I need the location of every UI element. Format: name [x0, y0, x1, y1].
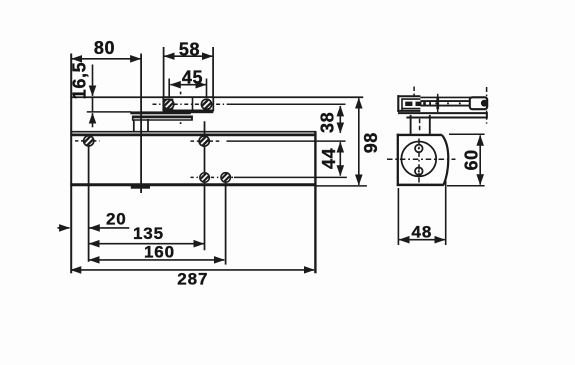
dimension 20 outside arrows — [57, 227, 69, 229]
plate screw centre extension (solid) — [230, 103, 346, 105]
top reference line — [70, 96, 363, 98]
cover top line — [70, 131, 316, 133]
body bottom extension line — [316, 185, 367, 187]
dimension 45 extension lines — [168, 79, 170, 98]
lower slide bar bottom — [406, 117, 487, 119]
slide channel bracket outer — [397, 95, 399, 112]
svg-text:45: 45 — [182, 68, 203, 88]
body screw hole lower 1 — [199, 172, 209, 182]
svg-text:160: 160 — [144, 243, 175, 262]
body bottom edge — [70, 183, 316, 186]
valve tab under body — [131, 186, 150, 189]
door axis centre line — [486, 87, 488, 124]
plate pivot centre marks — [180, 92, 182, 95]
dimension 287 — [71, 269, 314, 271]
arm channel — [132, 116, 193, 119]
arm rod segments in slot — [405, 102, 412, 106]
spindle stem right — [429, 115, 431, 134]
spindle stem left — [410, 115, 412, 134]
arm side view top line — [420, 100, 470, 102]
fixing hole upper — [415, 145, 423, 153]
lower slide bar end — [486, 112, 488, 118]
dimension 44 — [339, 142, 341, 175]
svg-text:38: 38 — [317, 112, 337, 133]
side body curved right edge — [442, 135, 448, 185]
dimension 58 — [164, 55, 212, 57]
dimension 38 — [339, 106, 341, 133]
dimension 48 — [399, 239, 445, 241]
body screw hole upper mid — [199, 136, 210, 147]
fixing hole lower — [415, 167, 423, 175]
hole-row extension line at x=88.6 — [88, 147, 90, 262]
plate screw right — [201, 99, 212, 110]
plate bottom thick bar — [163, 110, 213, 114]
slide channel bracket inner — [401, 99, 403, 111]
svg-text:20: 20 — [106, 209, 127, 228]
lower slide bar top — [398, 112, 488, 114]
dimension 160 — [89, 259, 224, 261]
dimension 60 extension lines — [449, 133, 485, 135]
side body top edge — [397, 134, 442, 136]
svg-text:48: 48 — [412, 223, 433, 242]
svg-text:80: 80 — [94, 38, 115, 58]
channel centre line above bracket — [413, 87, 415, 96]
dimension 48 extension lines — [397, 188, 399, 245]
svg-text:58: 58 — [179, 39, 200, 59]
hole row 1 extension (solid) — [227, 140, 346, 142]
svg-text:98: 98 — [361, 132, 381, 153]
arm bar — [130, 111, 191, 114]
pivot axis extension line — [140, 54, 142, 194]
arm top edge reference stub — [87, 111, 131, 113]
svg-text:60: 60 — [461, 149, 481, 170]
arm centre line dots — [424, 102, 469, 104]
dimension 135 — [89, 243, 204, 245]
body left edge / extension line — [70, 54, 72, 274]
dimension 45 — [170, 84, 206, 86]
stem centre line — [419, 119, 421, 132]
dimension 16,5 through line — [92, 97, 94, 112]
hole row 2 extension (solid) — [234, 176, 347, 178]
body centre line horizontal — [387, 158, 456, 160]
pinion boss — [133, 120, 135, 132]
cap pivot blob — [481, 100, 488, 107]
svg-text:135: 135 — [133, 224, 164, 243]
hole row 1 dash-dot — [75, 140, 100, 142]
arm end cap — [470, 97, 487, 109]
slide channel top line — [420, 96, 471, 98]
extension line holes x=204.5 — [204, 121, 206, 250]
body screw hole left — [83, 135, 94, 146]
body screw hole lower 2 — [221, 172, 231, 182]
body right edge / extension line — [314, 132, 316, 274]
mounting plate — [163, 97, 213, 110]
plate screw centre line (dash-dot) — [153, 103, 230, 105]
dimension 16,5 upper arrow — [92, 65, 94, 96]
body top edge — [70, 133, 316, 136]
hole row 2 dash-dot — [191, 176, 234, 178]
spring bore circle — [401, 142, 436, 177]
dimension 60 — [479, 135, 481, 184]
dimension 58 extension lines — [163, 47, 165, 98]
arm side view bottom line — [420, 105, 470, 107]
plate screw left — [163, 99, 174, 110]
side body left edge — [397, 134, 399, 186]
body centre line vertical — [418, 139, 420, 183]
elbow joint pin — [436, 97, 439, 110]
side body bottom edge — [397, 184, 444, 187]
svg-text:287: 287 — [177, 270, 208, 289]
dimension 80 — [72, 58, 141, 60]
svg-text:16,5: 16,5 — [70, 62, 90, 99]
dimension 16,5 lower arrow — [92, 113, 94, 127]
svg-text:44: 44 — [319, 148, 339, 169]
extension line hole x=225.6 — [225, 173, 227, 265]
dimension 98 — [358, 98, 360, 185]
